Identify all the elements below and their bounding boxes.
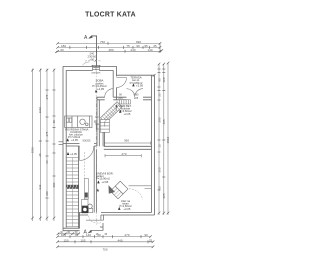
- svg-text:90: 90: [144, 233, 148, 237]
- bottom dim row 3: [56, 246, 154, 249]
- living room label: [96, 171, 114, 184]
- landing treads top of flight: [120, 100, 131, 104]
- attic stair label: [119, 199, 132, 211]
- left dimension lines: [33, 69, 55, 222]
- svg-text:60: 60: [60, 48, 64, 52]
- svg-text:+2,95: +2,95: [102, 180, 109, 184]
- bottom dim row 2: [56, 240, 154, 243]
- svg-text:275: 275: [45, 131, 49, 136]
- svg-text:45: 45: [75, 233, 79, 237]
- svg-text:45: 45: [104, 233, 107, 236]
- bottom wall right part: [79, 212, 152, 214]
- svg-text:205: 205: [134, 96, 139, 100]
- svg-text:270: 270: [124, 233, 129, 237]
- stair section cut band: [66, 185, 78, 189]
- window in top wall: [92, 65, 101, 71]
- door arc kitchen to stair hall: [80, 146, 94, 161]
- svg-text:+2,05: +2,05: [124, 207, 131, 211]
- svg-text:750: 750: [100, 40, 105, 44]
- svg-text:275: 275: [45, 94, 49, 99]
- stair shaft right wall: [78, 146, 80, 228]
- svg-text:60: 60: [45, 160, 49, 164]
- staircase treads: [66, 158, 78, 227]
- terrace label: [130, 75, 144, 87]
- svg-text:105: 105: [61, 233, 66, 237]
- top dim labels: [60, 40, 157, 52]
- window annotation above wall: [88, 52, 97, 62]
- svg-text:+2,05: +2,05: [124, 112, 131, 116]
- top dimension row 1: [58, 43, 160, 51]
- bottom dim short row under stairs: [57, 233, 80, 236]
- svg-text:910: 910: [38, 184, 42, 189]
- svg-text:300: 300: [45, 191, 49, 196]
- svg-text:150: 150: [63, 238, 68, 242]
- svg-text:P=15,90m2: P=15,90m2: [96, 177, 110, 181]
- living room top wall: [104, 145, 152, 147]
- outer walls: [63, 66, 156, 230]
- diagonal stair flight in hall: [100, 102, 122, 123]
- svg-text:140: 140: [86, 233, 91, 237]
- soba room label: [92, 79, 107, 92]
- svg-text:625: 625: [162, 193, 166, 198]
- terrace door arc: [117, 78, 127, 88]
- svg-text:290: 290: [52, 182, 56, 187]
- stair walk arrow: [105, 106, 117, 127]
- svg-text:75: 75: [126, 44, 130, 48]
- section marker A top: [89, 36, 96, 66]
- svg-text:+2,05: +2,05: [70, 152, 77, 156]
- svg-text:270: 270: [121, 152, 126, 156]
- soba door arc: [105, 89, 114, 98]
- svg-text:360: 360: [124, 139, 129, 143]
- wall niche stub: [96, 124, 99, 129]
- svg-text:360: 360: [157, 167, 161, 172]
- stub wall at stair foot: [102, 132, 104, 146]
- exterior landing edge: [86, 219, 104, 221]
- svg-text:60: 60: [97, 233, 101, 237]
- svg-text:480: 480: [108, 48, 113, 52]
- level label on stairs: [67, 152, 70, 155]
- bath fixtures bottom of corridor: [82, 200, 89, 206]
- left wall outer / inner: [62, 66, 64, 230]
- svg-text:1510: 1510: [166, 136, 170, 143]
- door stub wall right of exterior door: [101, 215, 104, 220]
- svg-text:25: 25: [157, 93, 161, 97]
- interior dim 360 above living room wall: [105, 141, 151, 144]
- stair hall left wall: [96, 97, 98, 146]
- svg-text:+2,95: +2,95: [71, 138, 78, 142]
- middle wall over bath/stair hall: [97, 96, 152, 98]
- hatch triangle left of rotated object: [109, 185, 116, 193]
- svg-text:25: 25: [153, 44, 157, 48]
- section marker A bottom: [91, 223, 104, 230]
- tick marks top rows: [55, 42, 163, 53]
- top wall: [63, 65, 117, 67]
- door labels on wall: [118, 93, 139, 101]
- svg-text:90: 90: [119, 93, 122, 97]
- svg-text:240: 240: [130, 48, 135, 52]
- svg-text:25: 25: [38, 153, 42, 157]
- svg-text:+2,95: +2,95: [97, 87, 105, 91]
- svg-text:1015: 1015: [38, 106, 42, 113]
- right wall: [151, 75, 153, 212]
- corridor wall: [93, 146, 95, 213]
- section dashed line: [95, 71, 97, 226]
- svg-text:15: 15: [157, 144, 161, 148]
- stair shaft bottom: [63, 227, 80, 229]
- svg-text:205: 205: [118, 96, 123, 100]
- bottom dim row 1: [56, 235, 152, 238]
- stair center line: [71, 158, 73, 227]
- soba right wall upper: [112, 70, 114, 97]
- svg-text:750: 750: [102, 247, 107, 251]
- dashed swing arc above window: [85, 60, 101, 61]
- svg-text:+90: +90: [89, 57, 94, 61]
- rotated furniture / stair to attic: [110, 181, 128, 199]
- svg-text:440: 440: [117, 238, 122, 242]
- terrace double door arcs: [127, 89, 144, 97]
- svg-text:90/205: 90/205: [83, 138, 91, 142]
- svg-text:TLOCRT KATA: TLOCRT KATA: [85, 11, 136, 18]
- svg-text:90: 90: [136, 44, 140, 48]
- kitchen label: [65, 127, 88, 142]
- svg-text:90: 90: [52, 120, 56, 124]
- balustrade line to right wall: [129, 185, 152, 187]
- svg-text:G80: G80: [134, 93, 139, 97]
- exterior door dashed arc bottom: [89, 216, 102, 224]
- terrace parapet: [117, 74, 155, 76]
- leader curve: [83, 62, 90, 65]
- svg-text:435: 435: [162, 119, 166, 124]
- galerija label: [119, 104, 132, 116]
- svg-text:105: 105: [80, 238, 85, 242]
- svg-text:90: 90: [157, 78, 161, 82]
- svg-text:A: A: [84, 35, 88, 41]
- second rail line to right wall: [145, 188, 152, 190]
- corridor radiator: [84, 179, 88, 200]
- dashed arc near rotated object: [129, 189, 143, 200]
- svg-text:120: 120: [162, 77, 166, 82]
- kitchen counter: [65, 116, 92, 128]
- svg-text:140: 140: [147, 48, 152, 52]
- small dim ticks on stair hall left wall: [95, 117, 99, 124]
- svg-text:60: 60: [157, 186, 161, 190]
- svg-text:290: 290: [157, 117, 161, 122]
- interior dim 270 below living room wall: [105, 154, 141, 157]
- right dimension lines: [159, 63, 168, 215]
- svg-text:1510: 1510: [31, 146, 35, 153]
- svg-text:25: 25: [149, 238, 153, 242]
- lower straight steps of flight: [100, 120, 109, 133]
- svg-text:+2,95: +2,95: [136, 83, 144, 87]
- kitchen/soba bottom wall: [63, 143, 97, 145]
